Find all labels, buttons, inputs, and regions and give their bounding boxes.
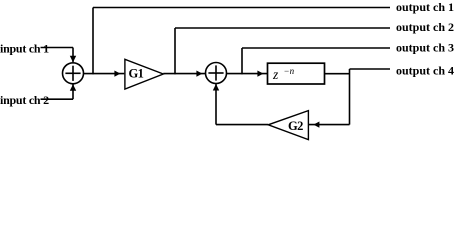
svg-text:output ch 3: output ch 3: [396, 41, 454, 55]
wire feedback right segment into G2: [308, 124, 349, 126]
wire branch up to output ch 3: [241, 48, 243, 74]
arrowhead into adder A1 from bottom: [70, 84, 76, 91]
amplifier G1 triangle: [125, 59, 163, 89]
wire delay box output: [325, 73, 350, 75]
wire G1 output to adder A2: [163, 73, 205, 75]
svg-text:input ch 1: input ch 1: [0, 42, 49, 56]
svg-text:z: z: [272, 67, 279, 82]
wire output ch 3 horizontal: [242, 47, 390, 49]
svg-text:G1: G1: [129, 67, 144, 81]
svg-text:input ch 2: input ch 2: [0, 93, 49, 107]
wire input ch 1 horizontal: [41, 47, 74, 49]
wire adder A2 output to delay box: [227, 73, 268, 75]
svg-text:output ch 1: output ch 1: [396, 0, 454, 14]
summing junction A2 plus sign: [208, 65, 223, 80]
svg-text:output ch 2: output ch 2: [396, 20, 454, 34]
svg-text:G2: G2: [288, 119, 303, 133]
delay box z^-n: [268, 63, 325, 84]
svg-text:−n: −n: [284, 66, 295, 76]
svg-text:output ch 4: output ch 4: [396, 64, 454, 78]
wire input ch 2 up into adder A1: [72, 85, 74, 100]
arrowhead into delay box: [257, 71, 263, 77]
wire adder A1 output to G1: [84, 73, 125, 75]
wire branch up to output ch 1: [92, 8, 94, 75]
amplifier G2 triangle: [268, 111, 308, 140]
summing junction A1 circle: [63, 63, 84, 84]
summing junction A1 plus sign: [65, 66, 80, 81]
arrowhead into adder A2: [196, 71, 202, 77]
summing junction A2 circle: [206, 63, 227, 84]
wire output ch 4 horizontal: [350, 68, 391, 70]
wire output ch 2 horizontal: [175, 27, 390, 29]
wire output ch 1 horizontal: [93, 7, 390, 9]
wire branch up to output ch 2: [174, 28, 176, 74]
wire input ch 1 down into adder A1: [72, 48, 74, 63]
wire feedback left segment from G2 apex: [216, 124, 268, 126]
wire input ch 2 horizontal: [41, 98, 74, 100]
wire feedback up into adder A2: [215, 84, 217, 125]
arrowhead into adder A1 from top: [70, 56, 76, 63]
arrowhead into adder A2 from bottom: [213, 84, 219, 91]
arrowhead into G2: [313, 122, 319, 128]
wire vertical from output ch 4 down to feedback: [349, 69, 351, 125]
arrowhead into G1: [114, 71, 120, 77]
